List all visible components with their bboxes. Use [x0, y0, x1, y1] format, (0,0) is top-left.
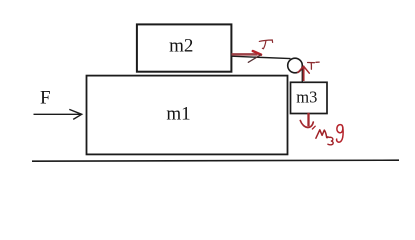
svg-text:F: F [40, 88, 51, 109]
svg-text:m2: m2 [169, 35, 193, 56]
svg-text:m1: m1 [166, 104, 190, 125]
svg-text:m3: m3 [296, 88, 317, 107]
